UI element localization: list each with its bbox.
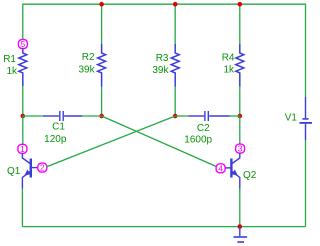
node 3	[236, 144, 245, 154]
value label R1 1k	[3, 54, 18, 77]
svg-text:5: 5	[21, 39, 26, 49]
wire top rail	[23, 3, 306, 5]
wire diagonal R3 to node 2	[46, 116, 175, 167]
svg-text:2: 2	[40, 163, 45, 173]
junction dot bottom rail	[238, 224, 243, 229]
resistor R4	[236, 44, 244, 87]
svg-text:1k: 1k	[6, 66, 18, 77]
svg-text:1k: 1k	[223, 65, 235, 76]
wire cap row left-right	[82, 115, 102, 117]
value label R2 39k	[78, 52, 95, 75]
value label C1 120p	[44, 122, 67, 145]
junction dot R4/cap row	[238, 114, 243, 119]
svg-text:1: 1	[20, 144, 25, 154]
svg-text:R2: R2	[82, 52, 95, 63]
svg-text:1600p: 1600p	[184, 135, 212, 146]
junction dot top R3	[173, 2, 178, 7]
wire R3 branch lower	[174, 87, 176, 117]
value label R4 1k	[222, 52, 235, 75]
wire R2 branch upper	[101, 4, 103, 44]
svg-text:C2: C2	[197, 123, 210, 134]
wire cap row right-left	[175, 115, 188, 117]
battery V1	[300, 97, 313, 140]
wire left rail lower	[21, 189, 23, 227]
wire right rail upper	[305, 4, 307, 97]
svg-text:C1: C1	[52, 122, 65, 133]
transistor Q2	[225, 153, 239, 188]
wire bottom rail	[22, 226, 305, 228]
wire R4 branch lower	[239, 87, 241, 117]
value label C2 1600p	[184, 123, 212, 146]
svg-text:39k: 39k	[152, 65, 169, 76]
transistor Q1	[22, 153, 37, 188]
wire diagonal R2 to node 4	[102, 116, 217, 167]
svg-text:R3: R3	[156, 53, 169, 64]
junction dot top R2	[99, 2, 104, 7]
wire left rail upper	[22, 4, 24, 40]
svg-text:R1: R1	[3, 54, 16, 65]
node 4	[216, 163, 225, 173]
svg-text:R4: R4	[222, 52, 235, 63]
wire R3 branch upper	[174, 4, 176, 44]
wire cap row right	[230, 115, 240, 117]
node 1	[18, 144, 27, 154]
svg-text:V1: V1	[285, 113, 298, 124]
wire left rail to Q1	[22, 116, 24, 144]
junction dot R2/cap row	[99, 114, 104, 119]
wire R4 branch upper	[239, 4, 241, 44]
svg-text:39k: 39k	[78, 65, 95, 76]
capacitor C1	[43, 111, 82, 121]
ground	[234, 227, 248, 242]
wire left rail mid	[22, 86, 24, 116]
resistor R1	[19, 48, 27, 86]
svg-text:3: 3	[238, 144, 243, 154]
resistor R3	[171, 44, 179, 87]
node 5	[18, 39, 27, 49]
value label R3 39k	[152, 53, 169, 76]
junction dot left/cap row	[21, 114, 26, 119]
junction dot R3/cap row	[173, 114, 178, 119]
wire cap row left	[23, 115, 43, 117]
wire Q2 emitter lower	[239, 189, 241, 227]
svg-text:Q1: Q1	[7, 166, 21, 177]
svg-text:120p: 120p	[44, 134, 67, 145]
resistor R2	[98, 44, 106, 87]
capacitor C2	[189, 111, 230, 121]
node 2	[38, 163, 47, 173]
svg-text:Q2: Q2	[243, 170, 257, 181]
wire R2 branch lower	[101, 87, 103, 117]
wire right rail lower	[305, 140, 307, 227]
svg-text:4: 4	[218, 163, 223, 173]
junction dot top R4	[238, 2, 243, 7]
wire R4 branch to Q2	[239, 116, 241, 144]
